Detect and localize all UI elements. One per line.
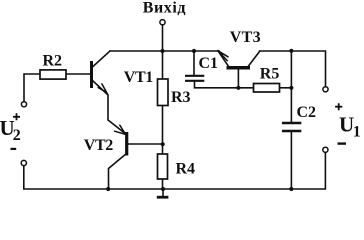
svg-text:1: 1	[353, 124, 361, 141]
svg-text:R3: R3	[171, 89, 191, 106]
svg-text:R2: R2	[43, 53, 63, 70]
svg-text:VT3: VT3	[230, 29, 261, 46]
svg-text:Вихід: Вихід	[143, 0, 186, 17]
svg-text:C1: C1	[199, 55, 219, 72]
svg-text:R4: R4	[176, 161, 196, 178]
svg-text:R5: R5	[260, 66, 280, 83]
svg-text:C2: C2	[297, 104, 317, 121]
svg-text:VT2: VT2	[84, 137, 113, 154]
svg-text:VT1: VT1	[124, 69, 153, 86]
svg-text:2: 2	[13, 127, 21, 144]
